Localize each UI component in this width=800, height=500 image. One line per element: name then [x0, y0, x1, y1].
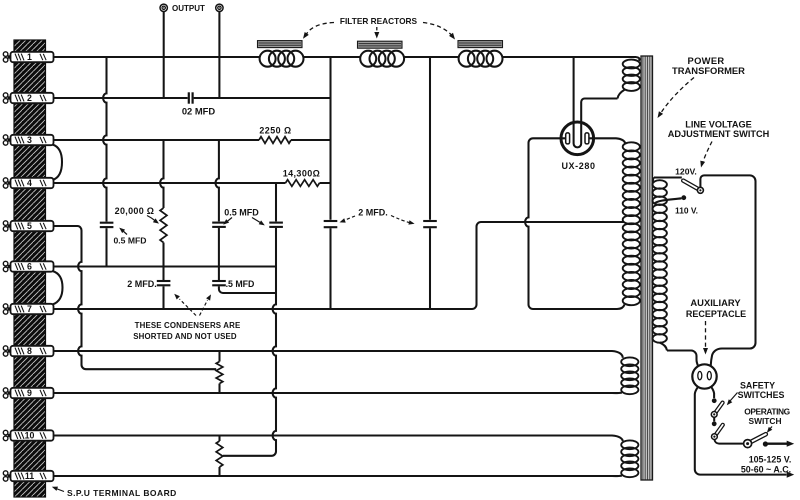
switch pivot	[697, 187, 703, 193]
wire rail 3 down to resistor 20,000 ohm (hops rail 4)	[160, 140, 163, 208]
label UX-280	[561, 161, 595, 171]
filter reactor L2 core bar	[358, 41, 403, 48]
label 120V.	[675, 166, 697, 176]
arrow label to C2	[223, 218, 232, 225]
wire rail 6 (terminal 6 line)	[53, 265, 276, 267]
svg-text:TRANSFORMER: TRANSFORMER	[672, 65, 745, 76]
auxiliary receptacle	[692, 364, 716, 388]
UX-280 filament lead A (to rail 1)	[573, 57, 575, 144]
svg-text:120V.: 120V.	[675, 166, 697, 176]
arrow label to line switch (dashed)	[700, 142, 712, 168]
svg-text:20,000 Ω: 20,000 Ω	[115, 206, 155, 216]
wire rail 3 (terminal 3 line)	[53, 139, 331, 141]
node contact dot (safety switch 1)	[712, 398, 717, 403]
filter reactor L1 winding	[260, 51, 304, 67]
terminal 1 (screw terminal bar)	[3, 52, 53, 62]
wire rail 9 (terminal 9 line)	[53, 392, 622, 395]
label FILTER REACTORS	[340, 16, 418, 26]
label 14,300 ohm	[283, 168, 321, 178]
arrow label to C3	[252, 218, 265, 226]
node contact dot (safety switch 2)	[712, 421, 717, 426]
svg-text:0.5 MFD: 0.5 MFD	[224, 207, 259, 217]
svg-text:1: 1	[27, 52, 32, 62]
UX-280 filament lead B (to filament winding)	[581, 98, 617, 143]
wire C1 bottom to rail 6	[105, 228, 107, 266]
svg-text:50-60 ~ A.C.: 50-60 ~ A.C.	[741, 465, 791, 475]
power transformer core (laminated)	[641, 56, 653, 480]
S.P.U terminal board (black hatched strip)	[14, 40, 46, 497]
wire S1 to S2	[713, 417, 715, 421]
terminal 3 (screw terminal bar)	[3, 135, 53, 145]
capacitor 02 MFD (series in rail 2)	[189, 92, 193, 103]
node 110V tap dot	[681, 195, 686, 200]
svg-text:7: 7	[27, 304, 32, 314]
svg-text:SHORTED AND NOT USED: SHORTED AND NOT USED	[133, 332, 237, 341]
svg-text:2250 Ω: 2250 Ω	[259, 126, 291, 136]
arrow AC line bottom	[787, 472, 795, 478]
svg-text:FILTER REACTORS: FILTER REACTORS	[340, 16, 418, 26]
safety switch S1 pivot	[711, 412, 717, 418]
svg-text:THESE CONDENSERS ARE: THESE CONDENSERS ARE	[135, 321, 241, 330]
transformer filament winding W1 (UX-280)	[618, 57, 640, 99]
wire C7 bottom curving right to vertical bus	[219, 286, 276, 293]
wire terminal 5 to tap of resistor R1 (hops rails 6,7,8)	[53, 226, 216, 369]
arrow label to receptacle (dashed)	[703, 321, 708, 355]
svg-text:110 V.: 110 V.	[675, 205, 698, 215]
output terminal + (binding post)	[160, 4, 167, 11]
svg-text:AUXILIARY: AUXILIARY	[690, 297, 741, 308]
capacitor C1 0.5 MFD	[100, 223, 114, 227]
label AUXILIARY RECEPTACLE	[686, 297, 746, 319]
terminal 6 (screw terminal bar)	[3, 261, 53, 271]
resistor 2250 ohm	[259, 137, 291, 144]
wire primary top tap to 120V contact	[654, 176, 682, 178]
label 0.5 MFD (for C1)	[114, 235, 147, 245]
transformer filament winding W3 (rails 8-9)	[621, 357, 638, 394]
arrow label to 20,000 ohm	[147, 216, 159, 224]
wire rail 1 (B+ line, terminal 1 to transformer winding)	[53, 56, 636, 58]
safety switch S2 lever	[714, 425, 722, 437]
arrow label to C1	[119, 228, 127, 235]
resistor R2 between rails 10 and 11	[216, 436, 223, 477]
svg-text:.5 MFD: .5 MFD	[226, 279, 255, 289]
transformer primary winding	[653, 178, 668, 351]
transformer filament winding W4 (rails 10-11)	[621, 440, 638, 477]
svg-text:0.5 MFD: 0.5 MFD	[114, 235, 147, 245]
operating switch lever	[748, 434, 766, 443]
svg-text:14,300Ω: 14,300Ω	[283, 168, 321, 178]
label .5 MFD (for C7)	[226, 279, 255, 289]
label 2250 ohm	[259, 126, 291, 136]
terminal 11 (screw terminal bar)	[3, 471, 53, 481]
wire rail 1 down to rail 7 at x330	[329, 57, 331, 309]
wire C6 bottom to rail 7	[162, 286, 164, 309]
resistor R1 between rails 8 and 9	[216, 351, 223, 393]
label OPERATING SWITCH	[744, 406, 790, 426]
svg-text:SWITCH: SWITCH	[748, 416, 781, 426]
safety switch S1 lever	[714, 403, 722, 415]
arrow note to C7 (dashed)	[200, 294, 212, 315]
svg-text:2 MFD.: 2 MFD.	[358, 207, 388, 217]
svg-text:SWITCHES: SWITCHES	[738, 390, 785, 400]
safety switch S2 pivot	[712, 434, 718, 440]
svg-text:LINE VOLTAGE: LINE VOLTAGE	[685, 119, 752, 129]
svg-text:02 MFD: 02 MFD	[182, 106, 216, 117]
wire receptacle bottom-left down to AC line	[695, 386, 787, 474]
wire rail 4 down to capacitor C3	[275, 183, 277, 221]
arrow to reactor L3 (dashed)	[423, 23, 455, 40]
svg-text:OPERATING: OPERATING	[744, 406, 790, 416]
wire rail 1 down to rail 7 at x430	[429, 57, 431, 309]
svg-text:11: 11	[25, 471, 34, 481]
wire rail 8 (terminal 8 line)	[53, 351, 623, 358]
wire from rail 1 down to capacitor C1 (hops rails 2,3,4)	[103, 57, 106, 222]
svg-text:5: 5	[27, 221, 32, 231]
output terminal - (binding post)	[216, 4, 223, 11]
operating switch pivot	[744, 440, 752, 448]
wire rail 10 (terminal 10 line)	[53, 436, 623, 442]
op-amp U1: UX-280 rectifier tube envelope	[561, 122, 594, 155]
wire receptacle bottom-right to safety switch	[711, 386, 714, 398]
capacitor C6 2 MFD	[157, 281, 171, 285]
transformer HV secondary winding W2	[623, 142, 640, 305]
wire output + down to rail 2	[163, 12, 165, 99]
capacitor C4 2 MFD	[324, 221, 338, 227]
terminal 8 (screw terminal bar)	[3, 346, 53, 356]
arrow label to safety switches	[727, 393, 738, 406]
label S.P.U TERMINAL BOARD	[67, 488, 177, 498]
terminal 9 (screw terminal bar)	[3, 388, 53, 398]
capacitor C2 0.5 MFD	[212, 223, 226, 227]
arrow to reactor L1 (dashed)	[303, 23, 334, 39]
wire rail 2 (terminal 2 line)	[53, 97, 331, 99]
svg-text:8: 8	[27, 346, 32, 356]
wire 20,000 ohm bottom through rail 6 to capacitor C6	[162, 243, 164, 281]
label 110 V.	[675, 205, 698, 215]
note THESE CONDENSERS ARE SHORTED AND NOT USED	[133, 321, 240, 341]
svg-text:4: 4	[27, 178, 32, 188]
svg-text:SAFETY: SAFETY	[740, 380, 775, 390]
wire S2 pivot to operating switch	[714, 440, 743, 444]
label 105-125 V. 50-60 A.C.	[741, 454, 791, 474]
svg-text:2: 2	[27, 93, 32, 103]
label 02 MFD	[182, 106, 216, 117]
filter reactor L3 core bar	[458, 41, 503, 48]
label OUTPUT	[172, 4, 205, 13]
svg-text:105-125 V.: 105-125 V.	[749, 454, 792, 464]
wire rail 11 (terminal 11 line)	[53, 475, 622, 478]
capacitor C5 2 MFD	[423, 221, 437, 227]
label POWER TRANSFORMER	[672, 55, 745, 76]
svg-text:OUTPUT: OUTPUT	[172, 4, 205, 13]
capacitor C7 .5 MFD	[212, 281, 226, 285]
resistor 14,300 ohm	[286, 180, 320, 187]
filter reactor L1 core bar	[258, 41, 303, 48]
arrow note to C6 (dashed)	[174, 294, 196, 316]
wire + arrow AC line top	[765, 441, 794, 447]
label LINE VOLTAGE ADJUSTMENT SWITCH	[668, 119, 770, 139]
svg-text:9: 9	[27, 388, 32, 398]
filter reactor L3 winding	[459, 51, 503, 67]
wire switch pivot to receptacle (right AC feed)	[700, 175, 755, 366]
svg-text:3: 3	[27, 135, 32, 145]
arrow label to C4 (dashed)	[340, 216, 356, 223]
UX-280 plate (right electrode)	[585, 133, 589, 144]
svg-text:2 MFD.: 2 MFD.	[127, 279, 157, 289]
jumper wire terminal 6 to terminal 7	[53, 271, 63, 305]
wire right plate to HV winding top	[589, 138, 625, 143]
svg-text:S.P.U TERMINAL BOARD: S.P.U TERMINAL BOARD	[67, 488, 177, 498]
arrow label to terminal board	[52, 487, 64, 492]
svg-text:10: 10	[25, 431, 35, 441]
resistor 20,000 ohm	[160, 208, 167, 242]
label 2 MFD. (for C6)	[127, 279, 157, 289]
wire primary bottom to receptacle (left AC feed)	[667, 351, 699, 367]
capacitor C3 0.5 MFD	[269, 223, 283, 227]
label 20,000 ohm	[115, 206, 155, 216]
arrow label to C5 (dashed)	[391, 216, 415, 225]
svg-text:6: 6	[27, 262, 32, 272]
wire 110V tap into primary winding	[654, 198, 681, 203]
label 2 MFD. (for C4, C5)	[358, 207, 388, 217]
filter reactor L2 winding	[360, 51, 404, 67]
arrow label to operating switch	[767, 427, 773, 433]
terminal 10 (screw terminal bar)	[3, 430, 53, 440]
label SAFETY SWITCHES	[738, 380, 785, 400]
svg-text:ADJUSTMENT SWITCH: ADJUSTMENT SWITCH	[668, 129, 770, 139]
svg-text:RECEPTACLE: RECEPTACLE	[686, 309, 746, 319]
wire C3 bottom down to lower resistor tap (hops rails 7,8,9,10)	[223, 228, 276, 456]
wire rail 4 (terminal 4 line)	[53, 182, 331, 184]
wire output - down to rail 2	[218, 12, 220, 99]
svg-text:UX-280: UX-280	[561, 161, 595, 171]
UX-280 filament hairpin	[574, 144, 582, 148]
line voltage adjustment switch lever	[683, 181, 700, 191]
node operating switch contact dot	[763, 441, 768, 446]
label 0.5 MFD (for C2 and C3)	[224, 207, 259, 217]
terminal 4 (screw terminal bar)	[3, 178, 53, 188]
terminal 7 (screw terminal bar)	[3, 304, 53, 314]
wire rail 3 down to capacitor C2 (hops rail 4)	[215, 140, 218, 221]
arrow to reactor L2 (dashed)	[374, 27, 379, 39]
terminal 5 (screw terminal bar)	[3, 221, 53, 231]
arrow label to transformer core (dashed)	[658, 78, 695, 119]
UX-280 plate (left electrode)	[566, 133, 570, 144]
wire left plate to HV winding bottom (hops center tap)	[525, 138, 624, 309]
wire C2 bottom through rail 6 to capacitor C7	[218, 228, 220, 280]
jumper wire terminal 3 to terminal 4	[53, 145, 63, 181]
wire rail 7 / HV center tap (terminal 7 to transformer)	[53, 222, 624, 309]
terminal 2 (screw terminal bar)	[3, 93, 53, 103]
